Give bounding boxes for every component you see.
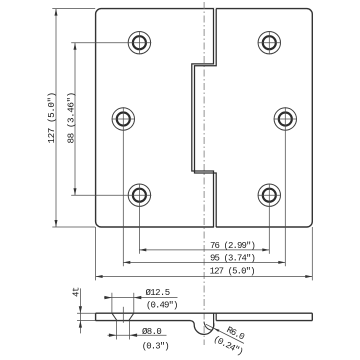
- hole centerline cross bottom-left (with 88 dim extension, extends to 76 dim): [71, 194, 151, 196]
- dimension 127 (5.0in) horizontal - line with arrows: [96, 276, 313, 278]
- dimension 127 (5.0in) horizontal - extension lines: [95, 227, 97, 280]
- svg-text:(0.3"): (0.3"): [142, 341, 169, 351]
- pin barrel curl (side view inner): [204, 322, 212, 331]
- radius R6.0 leader line with arrow: [206, 324, 244, 343]
- pin barrel curl (side view outer): [191, 321, 214, 335]
- knuckle joint edge lines (side view): [213, 313, 215, 326]
- countersunk hole centerline (section): [122, 307, 124, 323]
- dimension 4t - dimension line with arrows outside: [79, 288, 81, 333]
- hole centerline cross top-left (with 88 dim extension): [71, 42, 151, 44]
- screw hole top-left (countersunk): [128, 32, 150, 54]
- leaf joint edge (right leaf): [195, 9, 217, 227]
- hole centerline cross top-right: [258, 42, 281, 44]
- hole centerline cross middle-right (extends to 95 dim): [274, 118, 297, 120]
- dimension 95 (3.74in) horizontal - line with arrows: [123, 261, 285, 263]
- dimension 127 (5.0in) vertical - extension lines: [52, 8, 95, 10]
- hole centerline cross middle-left (extends to 95 dim): [112, 118, 135, 120]
- svg-text:4t: 4t: [71, 287, 81, 297]
- dimension 4t - extension lines: [77, 312, 96, 314]
- svg-text:Ø8.0: Ø8.0: [142, 327, 161, 337]
- dimension 76 (2.99in) horizontal - line with arrows: [139, 249, 269, 251]
- hinge plate outline (plan view, 127x127): [96, 9, 313, 227]
- side view plate left end: [95, 313, 97, 320]
- leaf joint edge (left leaf): [192, 9, 214, 227]
- screw hole middle-right (countersunk): [274, 108, 296, 130]
- svg-text:76 (2.99"): 76 (2.99"): [210, 241, 255, 251]
- dimension 127 (5.0in) vertical - dimension line with arrows: [55, 9, 57, 227]
- screw hole top-right (countersunk): [258, 32, 280, 54]
- dimension dia8.0 - dimension line with arrows outside: [108, 334, 167, 336]
- joint gap in plate outline (white breaks): [214, 8, 216, 10]
- svg-text:88 (3.46"): 88 (3.46"): [65, 92, 76, 143]
- side view plate right end: [311, 313, 313, 320]
- hole centerline cross bottom-right (extends to 76 dim): [258, 194, 281, 196]
- leaf side view plate: [96, 313, 313, 320]
- screw hole bottom-right (countersunk): [258, 184, 280, 206]
- dimension dia12.5 - dimension line with arrows outside: [104, 297, 177, 299]
- dimension dia12.5 - extension lines: [111, 293, 113, 313]
- countersunk hole in section: [112, 313, 134, 320]
- dimension 88 (3.46in) vertical - dimension line with arrows: [74, 43, 76, 196]
- svg-text:(0.49"): (0.49"): [146, 300, 178, 310]
- svg-text:95 (3.74"): 95 (3.74"): [210, 253, 255, 263]
- dimension dia8.0 - extension lines: [115, 321, 117, 340]
- screw hole bottom-left (countersunk): [128, 184, 150, 206]
- screw hole middle-left (countersunk): [112, 108, 134, 130]
- svg-text:127 (5.0"): 127 (5.0"): [46, 92, 57, 143]
- svg-text:Ø12.5: Ø12.5: [146, 288, 170, 298]
- svg-text:127 (5.0"): 127 (5.0"): [210, 267, 255, 277]
- hinge pin centerline: [203, 2, 205, 345]
